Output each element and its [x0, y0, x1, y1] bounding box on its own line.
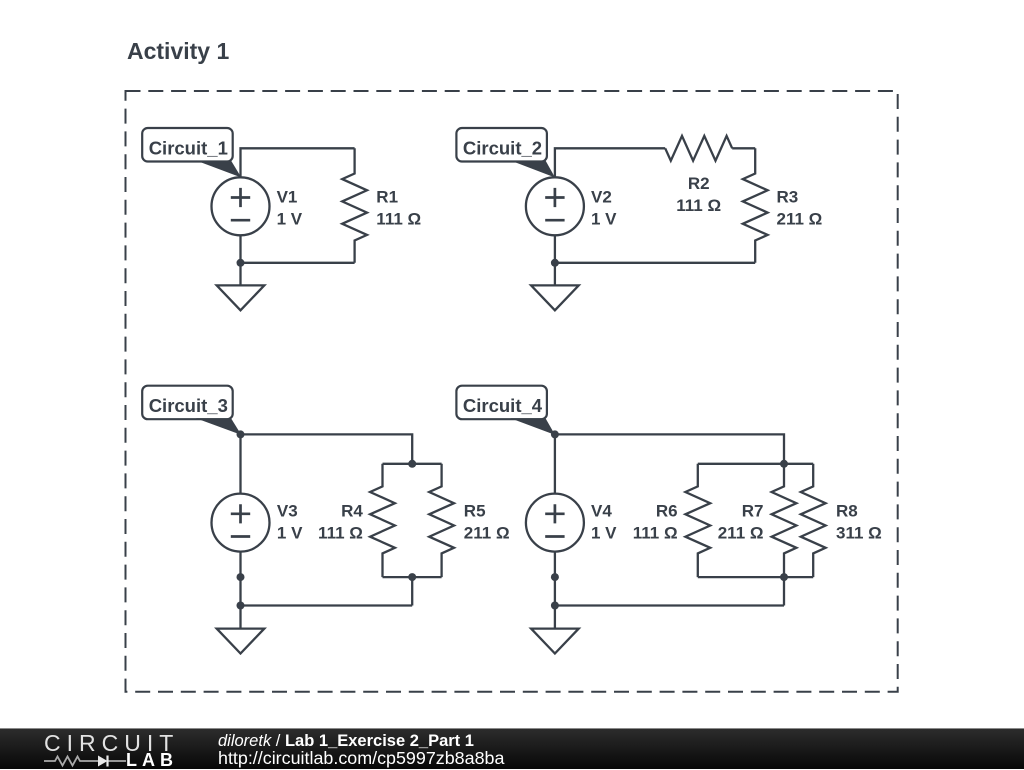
wire V1 bottom to ground [239, 235, 241, 284]
node V3 lower 2 [237, 602, 245, 610]
node V4 lower 2 [551, 602, 559, 610]
svg-text:Circuit_4: Circuit_4 [463, 395, 543, 416]
svg-text:1 V: 1 V [277, 209, 303, 228]
resistor R2 [665, 136, 732, 161]
wire V3 bottom to ground [239, 552, 241, 628]
svg-text:Circuit_2: Circuit_2 [463, 137, 542, 158]
wire pair top rail [383, 463, 442, 465]
wire V4 top node to parallel trio [555, 434, 784, 493]
voltage source V2 [526, 177, 584, 235]
voltage source V3 [212, 494, 270, 552]
svg-text:R5: R5 [464, 502, 486, 521]
flag pointer 1 [196, 161, 241, 178]
resistor R8 [801, 464, 826, 577]
flag pointer 2 [511, 161, 556, 178]
svg-text:1 V: 1 V [591, 209, 617, 228]
wire bottom rail circuit 1 [241, 262, 355, 264]
svg-text:211 Ω: 211 Ω [718, 524, 764, 543]
wire pair bottom to rail [411, 577, 413, 605]
resistor R5 [429, 464, 454, 577]
flag pointer 4 [511, 418, 556, 435]
svg-text:111 Ω: 111 Ω [676, 196, 721, 215]
resistor R4 [370, 464, 395, 577]
svg-text:V2: V2 [591, 187, 612, 206]
flag Circuit_4 [456, 386, 547, 420]
flag pointer 3 [196, 418, 241, 435]
svg-text:311 Ω: 311 Ω [836, 524, 882, 543]
voltage source V1 [212, 177, 270, 235]
svg-text:R6: R6 [656, 502, 678, 521]
flag Circuit_2 [456, 128, 547, 162]
flag Circuit_3 [142, 386, 233, 420]
wire trio top rail [698, 463, 813, 465]
wire trio bottom to rail [783, 577, 785, 605]
svg-text:R8: R8 [836, 502, 858, 521]
node trio bottom [780, 573, 788, 581]
resistor R6 [685, 464, 710, 577]
node junction circuit 2 [551, 259, 559, 267]
footer bar [0, 728, 1024, 769]
ground circuit 3 [217, 629, 265, 654]
ground circuit 4 [531, 629, 579, 654]
svg-text:111 Ω: 111 Ω [376, 210, 421, 229]
voltage source V4 [526, 494, 584, 552]
wire V3 top node to parallel pair [241, 434, 413, 493]
svg-text:V1: V1 [277, 187, 298, 206]
wire V2 top rail [555, 148, 665, 177]
node junction circuit 1 [237, 259, 245, 267]
node V3 lower 1 [237, 573, 245, 581]
wire V4 bottom to ground [554, 552, 556, 628]
node top circuit 3 [237, 430, 245, 438]
svg-text:Circuit_3: Circuit_3 [149, 395, 228, 416]
svg-text:211 Ω: 211 Ω [464, 524, 510, 543]
logo LAB text [126, 751, 178, 769]
footer center text [218, 733, 474, 749]
flag Circuit_1 [142, 128, 233, 162]
svg-text:Activity 1: Activity 1 [127, 38, 229, 64]
wire pair bottom rail [383, 576, 442, 578]
svg-text:V4: V4 [591, 502, 612, 521]
wire bottom rail circuit 3 [241, 604, 413, 606]
svg-text:1 V: 1 V [591, 524, 617, 543]
svg-text:R2: R2 [688, 174, 710, 193]
wire bottom rail circuit 2 [555, 262, 755, 264]
ground circuit 1 [217, 285, 265, 310]
node pair bottom [408, 573, 416, 581]
resistor R3 [743, 148, 768, 262]
wire bottom rail circuit 4 [555, 604, 784, 606]
logo CIRCUIT text [44, 732, 179, 755]
node V4 lower 1 [551, 573, 559, 581]
svg-text:R3: R3 [777, 188, 799, 207]
wire trio bottom rail [698, 576, 813, 578]
node pair top [408, 460, 416, 468]
svg-text:V3: V3 [277, 502, 298, 521]
wire V2 bottom to ground [554, 235, 556, 284]
dashed boundary box [126, 91, 898, 692]
node top circuit 4 [551, 430, 559, 438]
svg-text:Circuit_1: Circuit_1 [149, 137, 228, 158]
svg-text:111 Ω: 111 Ω [633, 524, 678, 543]
resistor R7 [772, 464, 797, 577]
svg-text:R1: R1 [376, 188, 398, 207]
svg-text:111 Ω: 111 Ω [318, 524, 363, 543]
logo mark resistor-diode [44, 754, 128, 768]
svg-text:R7: R7 [742, 502, 764, 521]
svg-text:1 V: 1 V [277, 524, 303, 543]
svg-text:211 Ω: 211 Ω [777, 210, 823, 229]
wire V1 top to R1 top [241, 148, 355, 177]
resistor R1 [342, 148, 367, 262]
ground circuit 2 [531, 285, 579, 310]
wire R2 to R3 corner [732, 147, 755, 149]
svg-text:R4: R4 [341, 502, 363, 521]
node trio top [780, 460, 788, 468]
